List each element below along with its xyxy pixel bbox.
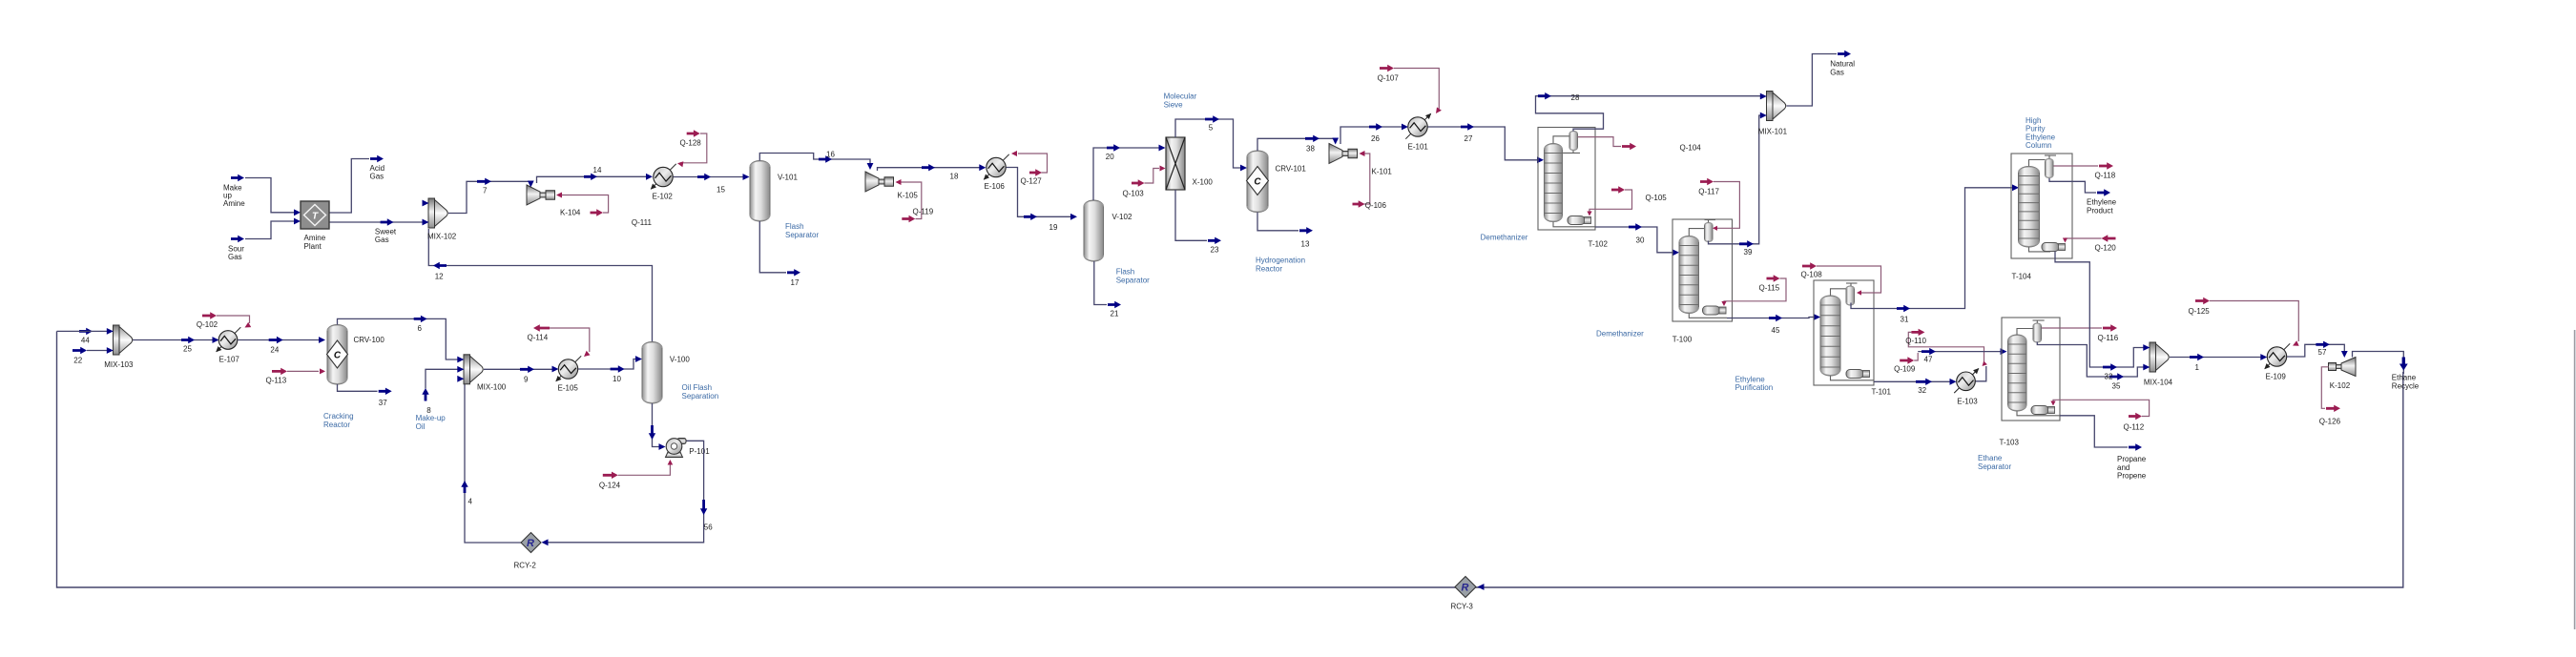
svg-text:Recycle: Recycle bbox=[2392, 381, 2420, 390]
svg-text:E-106: E-106 bbox=[985, 182, 1006, 191]
stream 8 arrow (up) bbox=[422, 388, 428, 401]
wire stream 9 MIX-100 to E-105 bbox=[484, 368, 552, 370]
reboiler T-102 bbox=[1568, 216, 1585, 225]
svg-text:K-104: K-104 bbox=[560, 209, 581, 217]
stream Propane and Propene arrow bbox=[2129, 443, 2142, 450]
svg-text:56: 56 bbox=[704, 524, 713, 532]
stream 45 arrow bbox=[1769, 315, 1782, 321]
svg-text:Hydrogenation: Hydrogenation bbox=[1256, 257, 1305, 265]
energy stream Q-125 arrow bbox=[2195, 298, 2210, 304]
mixer MIX-100 bbox=[464, 355, 470, 384]
svg-text:15: 15 bbox=[717, 186, 725, 195]
svg-text:and: and bbox=[2117, 463, 2129, 472]
svg-text:Q-109: Q-109 bbox=[1894, 365, 1916, 374]
wire stream 22 into MIX-103 bbox=[87, 350, 108, 352]
energy stream Q-110 arrow bbox=[1911, 329, 1924, 336]
stream Ethylene Product arrow bbox=[2097, 189, 2110, 195]
wire T-101 column top to condenser bbox=[1831, 289, 1847, 296]
wire Q-120 energy line to T-104 reboiler bbox=[2066, 238, 2102, 241]
svg-text:57: 57 bbox=[2318, 348, 2327, 357]
stream 24 arrow bbox=[269, 337, 283, 343]
svg-text:38: 38 bbox=[1306, 144, 1315, 153]
stream 57 arrow bbox=[2316, 341, 2330, 348]
wire T-102 column top to condenser bbox=[1553, 136, 1569, 144]
heat exchanger E-103 bbox=[1954, 369, 1979, 394]
svg-text:Q-103: Q-103 bbox=[1123, 190, 1145, 198]
svg-text:K-101: K-101 bbox=[1372, 167, 1393, 175]
svg-text:Oil: Oil bbox=[416, 422, 426, 431]
mixer MIX-101 bbox=[1767, 92, 1774, 121]
stream 23 arrow bbox=[1208, 237, 1221, 244]
wire T-101 column bottom to reboiler bbox=[1831, 376, 1875, 380]
svg-text:9: 9 bbox=[524, 376, 529, 384]
wire Q-124 energy line to P-101 bbox=[618, 464, 671, 475]
svg-text:Ethylene: Ethylene bbox=[2087, 198, 2117, 207]
wire stream 17 V-101 bottom product bbox=[759, 221, 786, 273]
component splitter Amine Plant bbox=[301, 201, 329, 229]
stream 31 arrow bbox=[1897, 305, 1910, 312]
svg-text:T-103: T-103 bbox=[2000, 438, 2020, 446]
svg-text:E-103: E-103 bbox=[1957, 398, 1978, 406]
heat exchanger E-105 bbox=[556, 356, 581, 380]
stream 10 arrow bbox=[611, 365, 625, 372]
stream Acid Gas arrow bbox=[370, 155, 384, 162]
svg-text:44: 44 bbox=[81, 336, 90, 344]
svg-text:17: 17 bbox=[791, 278, 800, 287]
wire stream 57 E-109 to K-102 bbox=[2287, 344, 2344, 357]
svg-text:K-102: K-102 bbox=[2330, 381, 2351, 390]
energy stream Q-105 arrow bbox=[1611, 186, 1625, 193]
stream 15 arrow bbox=[697, 174, 711, 180]
wire Q-103 energy line to X-100 bbox=[1145, 169, 1160, 184]
wire Q-113 energy line to CRV-100 bbox=[287, 370, 319, 372]
reboiler T-104 bbox=[2042, 243, 2059, 252]
energy stream Q-106 arrow bbox=[1353, 200, 1365, 207]
svg-text:Flash: Flash bbox=[1116, 268, 1135, 277]
stream 18 arrow bbox=[922, 164, 935, 171]
svg-text:T-102: T-102 bbox=[1589, 240, 1609, 249]
wire Natural Gas from MIX-101 bbox=[1787, 54, 1838, 107]
stream 38 arrow bbox=[1305, 135, 1319, 142]
energy stream Q-114 arrow (points left) bbox=[533, 324, 550, 331]
stream 12 arrow bbox=[433, 262, 447, 269]
energy stream Q-120 arrow (points left) bbox=[2102, 235, 2116, 241]
svg-text:Q-104: Q-104 bbox=[1680, 144, 1702, 153]
wire stream 15 E-102 to V-101 bbox=[674, 176, 744, 178]
svg-text:Ethane: Ethane bbox=[2392, 374, 2417, 382]
svg-text:4: 4 bbox=[468, 498, 473, 506]
molecular sieve X-100 bbox=[1166, 137, 1185, 190]
wire Q-118 energy line from T-104 condenser bbox=[2054, 165, 2099, 167]
wire Q-105 energy line to T-102 reboiler bbox=[1589, 190, 1632, 214]
wire Propane and Propene product from T-103 bbox=[2060, 416, 2128, 447]
wire stream 25 MIX-103 to E-107 bbox=[133, 339, 213, 341]
svg-text:Q-114: Q-114 bbox=[528, 333, 549, 341]
stream 27 arrow bbox=[1461, 123, 1474, 130]
vessel V-100 oil flash separator bbox=[642, 342, 662, 404]
reboiler T-103 bbox=[2031, 406, 2048, 415]
heat exchanger E-102 bbox=[651, 164, 675, 189]
svg-text:20: 20 bbox=[1106, 153, 1114, 161]
wire Q-114 energy line to E-105 bbox=[550, 328, 590, 352]
svg-text:C: C bbox=[334, 351, 342, 361]
energy stream Q-118 arrow bbox=[2099, 162, 2113, 169]
compressor K-101 bbox=[1329, 144, 1342, 164]
vessel V-102 flash separator bbox=[1084, 200, 1104, 261]
svg-text:V-101: V-101 bbox=[778, 174, 798, 182]
svg-text:Q-111: Q-111 bbox=[632, 218, 653, 227]
wire stream 56 P-101 to RCY-2 bbox=[547, 441, 704, 543]
energy stream Q-119 arrow bbox=[902, 216, 915, 222]
wire Ethane Recycle from K-102 to bottom loop bbox=[2353, 352, 2404, 375]
svg-text:Ethylene: Ethylene bbox=[2025, 133, 2056, 141]
stream 13 arrow bbox=[1299, 227, 1313, 234]
svg-text:Q-125: Q-125 bbox=[2189, 307, 2211, 316]
energy stream Q-104 arrow bbox=[1622, 143, 1636, 150]
column module T-101 box bbox=[1814, 280, 1874, 385]
wire stream 12 from V-100 top to MIX-102 bottom bbox=[428, 229, 652, 342]
svg-text:Q-128: Q-128 bbox=[680, 138, 702, 147]
wire stream 13 CRV-101 bottom product bbox=[1257, 213, 1298, 231]
wire T-104 column top to condenser bbox=[2029, 160, 2046, 167]
wire Q-109 energy hook bbox=[1914, 353, 1918, 360]
svg-text:T-104: T-104 bbox=[2012, 272, 2032, 280]
svg-text:Ethane: Ethane bbox=[1978, 454, 2003, 462]
stream 30 arrow bbox=[1629, 223, 1642, 230]
column T-100 tower bbox=[1679, 236, 1699, 314]
svg-text:E-102: E-102 bbox=[653, 192, 674, 200]
stream 32 arrow (T-104 bottoms) bbox=[2103, 363, 2117, 370]
wire stream 10 E-105 to V-100 bbox=[578, 359, 636, 370]
wire stream 24 E-107 to CRV-100 bbox=[238, 339, 319, 341]
svg-text:Separator: Separator bbox=[785, 231, 819, 239]
energy stream Q-127 arrow bbox=[1029, 169, 1042, 175]
svg-text:E-109: E-109 bbox=[2266, 372, 2287, 380]
wire stream 5 X-100 to CRV-101 bbox=[1175, 119, 1240, 168]
svg-text:19: 19 bbox=[1049, 223, 1058, 232]
mixer MIX-103 bbox=[114, 325, 120, 355]
wire Ethylene Product from T-104 condenser bbox=[2049, 178, 2096, 193]
svg-text:Q-118: Q-118 bbox=[2095, 172, 2116, 180]
energy stream Q-117 arrow bbox=[1700, 178, 1714, 185]
svg-text:22: 22 bbox=[73, 356, 82, 364]
column module T-103 box bbox=[2002, 318, 2060, 421]
stream 22 arrow bbox=[73, 347, 87, 354]
wire T-101 condenser vent stub bbox=[1846, 282, 1858, 284]
stream 37 arrow bbox=[379, 388, 392, 395]
svg-text:T-100: T-100 bbox=[1672, 335, 1693, 343]
stream 6 arrow bbox=[414, 316, 427, 322]
svg-text:CRV-100: CRV-100 bbox=[354, 336, 385, 344]
svg-text:X-100: X-100 bbox=[1193, 178, 1214, 187]
wire T-103 column bottom to reboiler bbox=[2017, 411, 2060, 416]
stream Sweet Gas arrow bbox=[381, 218, 394, 225]
svg-text:High: High bbox=[2025, 116, 2041, 125]
svg-text:Q-127: Q-127 bbox=[1021, 177, 1043, 186]
wire stream 7 MIX-102 to K-104 bbox=[448, 181, 530, 213]
wire stream 16 V-101 top to K-105 bbox=[759, 154, 870, 166]
svg-text:MIX-102: MIX-102 bbox=[427, 233, 457, 241]
column module T-100 box bbox=[1672, 219, 1733, 321]
svg-text:Q-106: Q-106 bbox=[1365, 201, 1387, 210]
wire stream 31 T-101 overhead to T-104 bbox=[1851, 188, 2012, 309]
wire stream 32 T-101 bottoms to E-103 bbox=[1874, 380, 1950, 382]
stream 28 arrow bbox=[1538, 92, 1551, 99]
stream 47 arrow bbox=[1922, 348, 1936, 355]
stream 19 arrow bbox=[1024, 214, 1037, 220]
svg-text:R: R bbox=[1462, 583, 1469, 594]
energy stream Q-112 arrow bbox=[2129, 413, 2142, 420]
stream Ethane Recycle arrow (down) bbox=[2399, 358, 2408, 371]
wire Q-106 energy line to K-101 bbox=[1362, 154, 1370, 204]
svg-text:K-105: K-105 bbox=[898, 192, 919, 200]
svg-text:Demethanizer: Demethanizer bbox=[1481, 234, 1528, 242]
wire stream 32 T-104 bottoms to MIX-104 bbox=[2055, 252, 2145, 368]
wire Q-119 energy line to K-105 bbox=[899, 182, 922, 219]
svg-text:5: 5 bbox=[1209, 124, 1214, 133]
svg-text:MIX-101: MIX-101 bbox=[1758, 127, 1788, 135]
svg-text:Separator: Separator bbox=[1978, 462, 2011, 471]
svg-text:24: 24 bbox=[270, 345, 279, 354]
wire stream 19 E-106 to V-102 bbox=[1007, 168, 1071, 217]
svg-text:32: 32 bbox=[1918, 386, 1926, 395]
wire T-100 column bottom to reboiler bbox=[1689, 314, 1727, 318]
stream 5 arrow bbox=[1205, 115, 1219, 122]
svg-text:12: 12 bbox=[435, 272, 444, 280]
energy stream Q-128 arrow bbox=[687, 130, 700, 136]
svg-text:Q-126: Q-126 bbox=[2319, 417, 2341, 425]
wire stream 21 V-102 bottom product bbox=[1094, 261, 1107, 305]
stream 32 arrow (to E-103) bbox=[1916, 379, 1932, 385]
stream 17 arrow bbox=[787, 269, 800, 276]
svg-text:Molecular: Molecular bbox=[1164, 92, 1197, 101]
svg-text:Q-112: Q-112 bbox=[2124, 422, 2145, 431]
svg-text:MIX-100: MIX-100 bbox=[477, 382, 507, 391]
svg-text:13: 13 bbox=[1301, 240, 1310, 249]
svg-text:Q-119: Q-119 bbox=[913, 208, 934, 216]
condenser T-100 bbox=[1705, 222, 1714, 241]
svg-text:Make-up: Make-up bbox=[416, 414, 447, 422]
wire stream 39 T-100 condenser to MIX-101 bbox=[1709, 115, 1761, 244]
recycle RCY-3 on bottom loop bbox=[1455, 577, 1476, 598]
reactor CRV-101 hydrogenation reactor bbox=[1247, 151, 1268, 213]
wire T-100 condenser vent stub bbox=[1705, 219, 1716, 221]
svg-text:30: 30 bbox=[1636, 236, 1645, 245]
wire Sweet Gas from Amine Plant to MIX-102 bbox=[329, 221, 425, 223]
column T-104 tower bbox=[2019, 167, 2040, 248]
svg-text:CRV-101: CRV-101 bbox=[1276, 165, 1307, 174]
stream 56 arrow (down) bbox=[700, 500, 707, 515]
wire stream 28 T-102 condenser to MIX-101 bbox=[1536, 96, 1761, 132]
wire stream 18 K-105 to E-106 bbox=[878, 168, 981, 171]
wire stream 47 to T-103 feed bbox=[1918, 351, 2001, 353]
svg-text:V-100: V-100 bbox=[670, 356, 690, 364]
svg-text:21: 21 bbox=[1111, 310, 1119, 318]
stream 16 arrow bbox=[819, 155, 832, 162]
heat exchanger E-106 bbox=[984, 154, 1008, 179]
wire Make up Amine to Amine Plant bbox=[245, 178, 294, 213]
column module T-104 box bbox=[2011, 154, 2072, 258]
stream Natural Gas arrow bbox=[1838, 51, 1851, 57]
wire T-100 column top to condenser bbox=[1689, 229, 1704, 236]
svg-text:47: 47 bbox=[1924, 356, 1933, 364]
wire T-102 condenser bottom reflux bbox=[1563, 152, 1581, 154]
svg-text:Gas: Gas bbox=[228, 253, 242, 261]
svg-text:Ethylene: Ethylene bbox=[1735, 375, 1766, 383]
wire stream 27 E-101 to T-102 bbox=[1428, 127, 1538, 160]
column module T-102 box bbox=[1538, 128, 1595, 231]
stream 4 arrow (up) bbox=[461, 481, 467, 493]
energy stream Q-115 arrow bbox=[1767, 275, 1780, 281]
stream 20 arrow bbox=[1107, 144, 1120, 151]
wire stream 20 V-102 top to X-100 bbox=[1093, 148, 1159, 200]
wire Q-107 energy line to E-101 bbox=[1394, 69, 1439, 110]
svg-text:RCY-2: RCY-2 bbox=[514, 562, 537, 570]
recycle RCY-2 bbox=[521, 533, 541, 553]
energy stream Q-116 arrow bbox=[2103, 324, 2117, 331]
wire stream 14 K-104 to E-102 bbox=[537, 176, 648, 183]
svg-text:Plant: Plant bbox=[304, 242, 322, 251]
wire stream 6 CRV-100 to MIX-100 bbox=[338, 318, 459, 359]
condenser T-102 bbox=[1569, 131, 1578, 150]
wire bottom recycle loop (RCY-3 line, left riser and right riser) bbox=[57, 331, 2403, 587]
condenser T-101 bbox=[1846, 286, 1855, 305]
svg-text:31: 31 bbox=[1901, 316, 1909, 324]
stream V-100 bottoms arrow (down) bbox=[649, 425, 655, 440]
wire stream 30 T-102 bottoms to T-100 bbox=[1595, 227, 1672, 253]
heat exchanger E-101 bbox=[1405, 113, 1430, 138]
svg-text:Sieve: Sieve bbox=[1164, 100, 1184, 109]
svg-text:Separator: Separator bbox=[1116, 276, 1150, 284]
svg-text:Reactor: Reactor bbox=[323, 421, 350, 429]
stream 7 arrow bbox=[477, 178, 491, 185]
svg-text:Purification: Purification bbox=[1735, 383, 1774, 392]
svg-text:Separation: Separation bbox=[682, 392, 719, 400]
svg-text:T-101: T-101 bbox=[1872, 387, 1892, 396]
reactor CRV-100 cracking reactor bbox=[327, 325, 347, 385]
energy stream K-104 power arrow bbox=[591, 209, 604, 216]
energy stream Q-113 arrow bbox=[272, 368, 287, 375]
wire stream 23 X-100 bottom product bbox=[1175, 190, 1207, 240]
stream 1 arrow bbox=[2190, 354, 2204, 360]
svg-text:RCY-3: RCY-3 bbox=[1451, 603, 1474, 611]
svg-text:32: 32 bbox=[2105, 373, 2113, 381]
svg-text:E-101: E-101 bbox=[1408, 143, 1429, 152]
condenser T-103 bbox=[2033, 323, 2042, 342]
svg-text:C: C bbox=[1254, 177, 1261, 188]
wire T-103 column top to condenser bbox=[2017, 329, 2033, 336]
stream Sour Gas arrow bbox=[231, 236, 244, 242]
svg-text:V-102: V-102 bbox=[1112, 213, 1132, 221]
svg-text:37: 37 bbox=[379, 399, 387, 407]
wire T-104 condenser vent stub bbox=[2045, 154, 2056, 156]
svg-text:Q-102: Q-102 bbox=[197, 320, 218, 329]
wire stream 35 T-103 overhead to MIX-104 bbox=[2037, 342, 2144, 378]
reboiler T-101 bbox=[1846, 370, 1863, 379]
energy stream Q-107 arrow bbox=[1380, 65, 1394, 72]
svg-text:T: T bbox=[312, 212, 319, 222]
wire Q-127 energy line to E-106 bbox=[1018, 154, 1048, 173]
svg-text:Purity: Purity bbox=[2025, 125, 2045, 133]
svg-text:18: 18 bbox=[950, 173, 959, 181]
wire stream 1 MIX-104 to E-109 bbox=[2170, 357, 2261, 359]
svg-text:Q-113: Q-113 bbox=[266, 376, 287, 384]
energy stream Q-103 arrow bbox=[1132, 179, 1145, 186]
reboiler T-100 bbox=[1703, 306, 1720, 315]
wire K-104 energy line bbox=[560, 195, 609, 214]
wire stream 44 into MIX-103 bbox=[57, 330, 109, 332]
svg-text:Reactor: Reactor bbox=[1256, 264, 1282, 273]
energy stream Q-124 arrow bbox=[603, 472, 618, 479]
svg-text:45: 45 bbox=[1772, 326, 1780, 335]
column T-102 tower bbox=[1545, 144, 1563, 222]
wire Q-116 energy line from T-103 condenser bbox=[2042, 327, 2102, 329]
svg-text:39: 39 bbox=[1744, 248, 1753, 257]
wire T-104 column bottom to reboiler bbox=[2029, 247, 2051, 252]
svg-text:10: 10 bbox=[613, 375, 621, 383]
wire stream 26 K-101 to E-101 bbox=[1340, 127, 1402, 144]
stream 21 arrow bbox=[1108, 301, 1121, 308]
wire Q-126 energy line from K-102 bbox=[2321, 367, 2328, 409]
svg-text:Q-117: Q-117 bbox=[1698, 187, 1719, 195]
wire stream 38 CRV-101 to K-101 bbox=[1257, 138, 1336, 151]
svg-text:R: R bbox=[527, 538, 534, 549]
stream 44 arrow bbox=[79, 328, 93, 335]
svg-text:MIX-103: MIX-103 bbox=[104, 360, 134, 369]
svg-text:Flash: Flash bbox=[785, 222, 804, 231]
wire Q-110 energy line to E-103 bbox=[1908, 332, 1984, 363]
wire V-100 bottom to P-101 bbox=[652, 403, 654, 444]
svg-text:Gas: Gas bbox=[1830, 68, 1844, 76]
heat exchanger E-109 bbox=[2265, 343, 2290, 368]
svg-text:Propane: Propane bbox=[2117, 455, 2147, 463]
mixer MIX-104 bbox=[2150, 342, 2156, 372]
svg-text:Gas: Gas bbox=[370, 173, 384, 181]
svg-text:Amine: Amine bbox=[223, 199, 245, 208]
svg-text:16: 16 bbox=[826, 150, 835, 158]
svg-text:Propene: Propene bbox=[2117, 472, 2147, 481]
stream 26 arrow bbox=[1369, 123, 1382, 130]
svg-text:6: 6 bbox=[418, 324, 423, 333]
energy stream Q-108 arrow bbox=[1802, 262, 1817, 269]
svg-text:E-107: E-107 bbox=[219, 355, 240, 363]
wire Q-112 energy line to T-103 reboiler bbox=[2053, 400, 2150, 416]
wire stream 8 Make-up Oil to MIX-100 bbox=[426, 369, 458, 388]
svg-text:1: 1 bbox=[2195, 363, 2200, 372]
wire Acid Gas from Amine Plant bbox=[329, 159, 369, 214]
energy stream Q-126 arrow bbox=[2326, 405, 2340, 412]
compressor K-102 (box left) bbox=[2341, 358, 2356, 377]
condenser T-104 bbox=[2046, 158, 2054, 177]
svg-text:35: 35 bbox=[2112, 382, 2121, 391]
svg-text:Gas: Gas bbox=[375, 236, 389, 244]
stream Make up Amine arrow bbox=[231, 175, 244, 181]
svg-text:MIX-104: MIX-104 bbox=[2144, 378, 2173, 386]
svg-text:Oil Flash: Oil Flash bbox=[682, 383, 713, 392]
svg-text:14: 14 bbox=[593, 166, 602, 175]
svg-text:Column: Column bbox=[2025, 141, 2052, 150]
svg-text:Cracking: Cracking bbox=[323, 412, 354, 421]
wire T-103 condenser vent stub bbox=[2033, 319, 2045, 321]
screen right edge artifact line bbox=[2574, 330, 2576, 629]
energy stream Q-102 arrow bbox=[202, 312, 217, 318]
energy stream Q-109 arrow bbox=[1900, 357, 1914, 363]
stream 9 arrow bbox=[520, 366, 534, 373]
wire T-102 column bottom to reboiler bbox=[1553, 222, 1595, 227]
svg-text:26: 26 bbox=[1371, 134, 1380, 143]
svg-text:Q-116: Q-116 bbox=[2098, 334, 2119, 342]
svg-text:P-101: P-101 bbox=[689, 447, 710, 456]
